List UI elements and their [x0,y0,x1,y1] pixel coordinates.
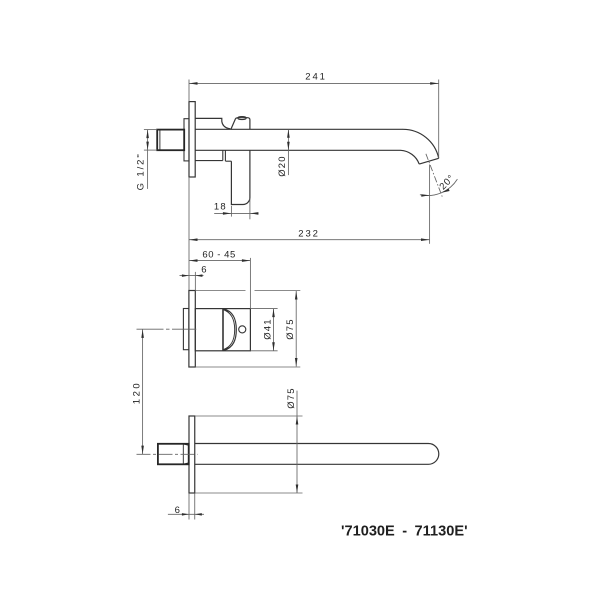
svg-text:120: 120 [132,381,143,404]
spout end curve and outlet face (top drawing) [401,129,439,164]
wall projection line between top and middle views [188,177,190,291]
dimension 241 (top) [189,80,439,159]
dimension diameter 75 (middle) [195,291,300,368]
centerline (bottom drawing) [137,453,198,455]
dimension 232 (bottom of top view) [189,239,430,241]
dimension diameter 75 (bottom) [195,391,303,493]
svg-text:G 1/2": G 1/2" [135,152,146,190]
svg-text:20°: 20° [438,173,458,193]
svg-text:Ø75: Ø75 [285,318,296,340]
spout tube (side view, top drawing) [195,129,403,150]
handle D-profile (middle drawing) [223,309,236,351]
wall plate (side view, top drawing) [189,102,195,177]
dimension G 1/2" (pipe, top view) [144,130,157,189]
svg-text:Ø75: Ø75 [286,387,297,409]
svg-text:18: 18 [214,202,227,213]
svg-text:60 - 45: 60 - 45 [202,249,235,260]
svg-text:232: 232 [298,229,320,240]
20 degree outlet angle annotation (top view) [420,154,458,244]
svg-text:'71030E - 71130E': '71030E - 71130E' [341,524,468,540]
dimension diameter 41 (middle) [250,309,277,351]
threaded pipe (bottom drawing) [158,444,189,465]
wall plate (middle drawing) [189,291,195,368]
dimension 6 plate thickness (bottom) [168,493,204,519]
cartridge screw circle (middle drawing) [239,326,246,333]
mixer body above spout with handle dome (top drawing) [195,117,250,130]
dimension diameter 20 (spout tube, top view) [287,129,289,175]
dimension 60 - 45 (middle) [189,258,250,309]
svg-text:6: 6 [175,505,181,516]
handle lever (top drawing) [231,150,250,204]
mixer body rectangle (middle drawing) [195,309,250,351]
escutcheon ring seams below spout (top drawing) [195,150,231,161]
svg-text:Ø41: Ø41 [262,318,273,340]
threaded pipe G1/2 (top drawing) [157,130,184,151]
centerline (middle drawing) [137,328,197,330]
dimension 120 (left, between centerlines) [142,329,144,454]
spout tube with rounded end (bottom drawing) [195,443,439,464]
svg-text:Ø20: Ø20 [277,155,288,177]
dimension 18 (handle width, top view) [214,199,258,220]
wall plate (bottom drawing) [189,416,195,493]
dimension 6 plate thickness (middle) [180,272,204,291]
svg-text:241: 241 [305,72,327,83]
svg-text:6: 6 [201,265,207,276]
body collar behind wall (top drawing) [184,119,189,161]
body collar behind wall (middle drawing) [183,309,189,350]
